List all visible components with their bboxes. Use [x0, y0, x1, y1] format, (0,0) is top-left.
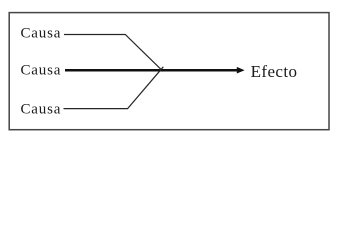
- arrowhead: [237, 67, 245, 74]
- svg-text:Causa: Causa: [21, 101, 62, 117]
- wire main arrow shaft: [65, 69, 238, 72]
- svg-text:Efecto: Efecto: [251, 62, 298, 81]
- wire from bottom Causa to junction: [64, 67, 164, 109]
- svg-text:Causa: Causa: [21, 26, 62, 42]
- frame border: [9, 13, 329, 130]
- svg-text:Causa: Causa: [21, 62, 62, 78]
- wire from top Causa to junction: [64, 35, 163, 72]
